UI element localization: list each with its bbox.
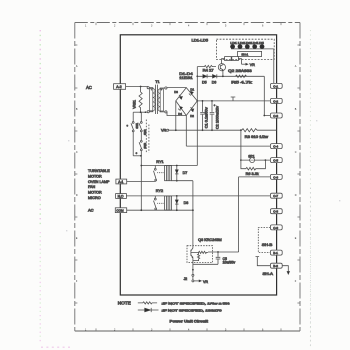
svg-text:C-7: C-7 — [273, 194, 278, 198]
wire COM rail — [127, 209, 193, 211]
svg-text:1: 1 — [85, 25, 87, 28]
wire switch bottom — [133, 155, 141, 157]
svg-text:LD1 LD2LD3LD4LD5: LD1 LD2LD3LD4LD5 — [230, 41, 264, 45]
svg-text:D4: D4 — [178, 112, 182, 116]
svg-text:Power Unit Circuit: Power Unit Circuit — [170, 319, 209, 324]
connector A-2 — [114, 84, 126, 90]
svg-text:SP1: SP1 — [248, 154, 255, 158]
LED LD5 — [260, 44, 264, 48]
svg-text:J2: J2 — [184, 277, 188, 281]
wire bridge+ up to diode row — [196, 67, 198, 101]
node RY2 coil bottom joins — [192, 209, 194, 211]
connector C-8 — [270, 209, 282, 214]
svg-text:Q2 2SA933: Q2 2SA933 — [228, 69, 252, 73]
svg-text:D2: D2 — [190, 114, 194, 118]
chassis arrow at B-2 — [282, 266, 290, 275]
wire RY1 top rail — [141, 165, 197, 167]
svg-text:VR: VR — [161, 129, 167, 133]
svg-text:C-6: C-6 — [273, 175, 278, 179]
relay RY1 contact — [154, 166, 165, 182]
svg-text:B-1: B-1 — [273, 251, 278, 255]
node emitter C5 join — [192, 269, 194, 271]
wire lower branch with D5 D6 — [197, 75, 264, 77]
wire bridge bottom down to C-4 line — [185, 116, 187, 147]
transformer T1 secondary winding — [158, 87, 167, 113]
connector C-6 — [270, 174, 282, 179]
node C1 bottom — [202, 129, 204, 131]
svg-text:VRS1: VRS1 — [133, 100, 137, 109]
svg-text:SH-1: SH-1 — [241, 52, 248, 56]
node dots on primary bottom wire — [140, 111, 142, 113]
svg-text:E: E — [295, 237, 297, 240]
svg-text:MOTOR: MOTOR — [88, 174, 102, 178]
border tick marks left — [75, 45, 78, 303]
outer page border frame — [75, 22, 300, 24]
switch SW1 left pole — [131, 112, 134, 156]
svg-text:VR: VR — [250, 63, 255, 67]
connector C-9 — [270, 225, 282, 230]
wire Q2 collector down — [222, 71, 224, 77]
svg-text:11ES1: 11ES1 — [179, 76, 193, 80]
svg-text:A-2: A-2 — [116, 85, 121, 89]
legend resistor symbol — [138, 302, 157, 304]
transistor Q2 — [218, 64, 225, 71]
svg-text:C-8: C-8 — [273, 210, 278, 214]
wire Q3 base line out — [208, 251, 239, 253]
capacitor C1 — [200, 101, 205, 130]
svg-text:*: * — [136, 152, 138, 156]
legend diode symbol — [138, 308, 159, 312]
svg-text:RY1: RY1 — [156, 160, 163, 164]
margin noise bottom dotted line pink — [41, 346, 71, 348]
svg-text:AC: AC — [88, 207, 94, 212]
svg-text:D: D — [76, 194, 78, 197]
shunt SH-A link to B-2 — [256, 257, 271, 266]
svg-text:AC: AC — [86, 85, 92, 90]
svg-text:SH-A: SH-A — [263, 272, 274, 276]
connector C-5 — [270, 158, 282, 163]
node bridge left to rail — [175, 129, 177, 131]
svg-text::IF NOT SPECIFIED, 1SS270: :IF NOT SPECIFIED, 1SS270 — [162, 308, 222, 312]
border tick marks right — [297, 45, 300, 303]
svg-text:TURNTABLE: TURNTABLE — [88, 169, 110, 173]
node SP1 right — [265, 159, 267, 161]
node Q2 collector — [222, 75, 224, 77]
svg-text:B: B — [295, 108, 297, 111]
transformer T1 primary winding — [147, 87, 155, 113]
wire R5 branch down to C-3 — [264, 76, 270, 115]
svg-text:VR: VR — [203, 280, 208, 284]
svg-text:D6: D6 — [212, 81, 217, 85]
bridge rectifier D1-D4 diamond — [176, 88, 198, 116]
svg-text:C-3: C-3 — [273, 114, 278, 118]
test point T mark — [231, 97, 236, 101]
node switch bottom — [140, 155, 142, 157]
connector C-1 — [270, 83, 282, 88]
svg-text:C-1: C-1 — [273, 84, 278, 88]
switch SW3 lower — [139, 140, 142, 210]
svg-text:D3: D3 — [174, 90, 178, 94]
wire primary bottom — [133, 111, 147, 113]
svg-text:C: C — [295, 151, 297, 154]
svg-text:RY2: RY2 — [156, 189, 163, 193]
wire C-4 line — [186, 145, 270, 147]
wire A-1 to RY1 contact — [127, 180, 156, 182]
svg-text:C-2: C-2 — [273, 99, 278, 103]
wire AC top to transformer — [126, 86, 149, 88]
svg-text:R3 910 1/2w: R3 910 1/2w — [245, 135, 269, 139]
jumper J2 terminals — [192, 274, 194, 282]
svg-text:5: 5 — [225, 25, 227, 28]
svg-text:SH-B: SH-B — [262, 243, 273, 247]
svg-text:COM: COM — [116, 209, 124, 213]
wire Q3 emitter down — [192, 263, 194, 275]
svg-text:*: * — [127, 125, 129, 129]
diode D1 arrow — [189, 91, 194, 96]
node diode row split — [196, 75, 198, 77]
svg-text:C2 1000u/25v: C2 1000u/25v — [215, 106, 219, 129]
diode D3 arrow — [179, 95, 183, 100]
svg-text:D5: D5 — [202, 81, 207, 85]
wire LED common bracket — [231, 49, 274, 84]
wire R2 right lead — [238, 59, 241, 65]
resistor R3 zigzag — [242, 129, 277, 132]
node C2 bottom — [211, 129, 213, 131]
connector COM — [115, 208, 126, 213]
resistor Q3 base R — [191, 251, 208, 253]
svg-text:B: B — [76, 108, 78, 111]
connector C-3 — [270, 113, 282, 118]
svg-text:MICRO: MICRO — [88, 196, 101, 200]
border index marks — [76, 25, 297, 332]
svg-text:A-1: A-1 — [118, 180, 123, 184]
diode D4 arrow — [178, 106, 183, 110]
margin noise right dotted line — [309, 30, 311, 348]
capacitor C5 — [193, 252, 220, 264]
wire C-6 line — [239, 177, 271, 252]
wire RY1 bottom rail to Q3 — [172, 181, 193, 246]
border tick marks top — [96, 23, 281, 26]
node D8 bottom — [176, 209, 178, 211]
diode D8 — [175, 196, 178, 210]
svg-text:F: F — [295, 280, 297, 283]
node RY1 rail left — [140, 165, 142, 167]
connector C-4 — [270, 144, 282, 149]
svg-text:Q3 KRC243M: Q3 KRC243M — [198, 238, 222, 242]
node D8 top — [176, 195, 178, 197]
diode D7 — [175, 166, 178, 181]
margin noise left dotted line pink — [39, 30, 41, 225]
arrow to VR net — [242, 63, 249, 65]
svg-text:A: A — [295, 65, 297, 68]
resistor R5 on line — [236, 75, 247, 77]
svg-text:SW1: SW1 — [135, 122, 139, 128]
LED LD2 — [238, 44, 242, 48]
LED LD4 — [253, 44, 257, 48]
svg-text:C: C — [76, 151, 78, 154]
wire DC+ top rail — [197, 100, 270, 102]
svg-text::IF NOT SPECIFIED, 1/4w ± 5%: :IF NOT SPECIFIED, 1/4w ± 5% — [162, 301, 230, 305]
wire N.O to C-7 — [126, 195, 270, 197]
relay RY1 coil — [165, 166, 172, 181]
svg-text:R5 4.7k: R5 4.7k — [231, 80, 252, 85]
svg-text:NOTE: NOTE — [118, 301, 131, 306]
inner schematic box — [120, 35, 276, 295]
svg-text:D1: D1 — [190, 87, 194, 91]
varistor VRS1 — [139, 87, 142, 113]
svg-text:N.O: N.O — [118, 194, 124, 198]
wire rail to SP1 vertical — [240, 130, 242, 160]
svg-text:3: 3 — [151, 25, 153, 28]
node C1 top — [202, 100, 204, 102]
wire secondary bottom to bridge — [167, 112, 186, 116]
svg-text:MOTOR: MOTOR — [88, 191, 102, 195]
transistor Q3 dashed box — [187, 246, 213, 263]
relay RY2 coil — [165, 196, 172, 210]
node C-3 corner — [263, 115, 265, 117]
arrow to VR net bottom — [194, 280, 202, 282]
svg-text:D: D — [295, 194, 297, 197]
diode D6 — [212, 74, 216, 78]
node junction VRS1 top — [140, 86, 142, 88]
diode D5 — [203, 74, 207, 78]
svg-text:10u/35v: 10u/35v — [223, 261, 236, 265]
margin noise faint specks — [66, 120, 340, 231]
wire R1 left lead to Q2 base — [222, 59, 225, 64]
relay RY2 contact — [154, 196, 165, 210]
connector B-2 — [270, 263, 282, 268]
node D7 top — [176, 165, 178, 167]
terminal VR circle — [167, 129, 169, 131]
wire bridge left corner down — [175, 101, 177, 130]
resistor Q3 base-emitter R — [193, 252, 200, 260]
svg-text:4: 4 — [188, 25, 190, 28]
resistor R1 box — [225, 57, 232, 61]
svg-text:D7: D7 — [183, 171, 188, 175]
svg-text:A: A — [76, 65, 78, 68]
diode D2 arrow — [191, 107, 195, 112]
transformer T1 core — [156, 85, 158, 114]
node COM bus — [140, 209, 142, 211]
svg-text:6: 6 — [262, 25, 264, 28]
border tick marks bottom — [96, 328, 281, 331]
LED LD1 — [230, 44, 234, 48]
svg-text:T1: T1 — [155, 80, 159, 84]
switch SW2 middle pole — [139, 112, 142, 140]
connector B-1 — [270, 250, 282, 255]
svg-text:2: 2 — [114, 25, 116, 28]
shunt SH-B dashed link C-9 to B-1 — [258, 227, 270, 252]
svg-text:C-5: C-5 — [273, 159, 278, 163]
resistor R6 parallel loop — [241, 160, 266, 170]
label TURNTABLE MOTOR OVEN LAMP FAN MOTOR — [88, 169, 110, 195]
svg-text:R4 27: R4 27 — [203, 68, 214, 72]
resistor R2 box — [232, 57, 239, 61]
node D7 bottom — [176, 180, 178, 182]
wire bridge right down to RY1 rail — [196, 101, 198, 166]
LED LD3 — [245, 44, 249, 48]
node SP1 left — [240, 159, 242, 161]
node bridge + output — [196, 100, 198, 102]
svg-text:C-4: C-4 — [273, 145, 278, 149]
resistor R4 on upper branch — [197, 65, 216, 67]
display unit SH-1 box — [238, 51, 262, 56]
buzzer SP1 — [241, 158, 271, 163]
transistor Q3 symbol — [191, 246, 193, 263]
svg-text:FAN: FAN — [88, 185, 96, 189]
svg-text:C-9: C-9 — [273, 226, 278, 230]
svg-text:R6 3.3k: R6 3.3k — [246, 172, 259, 176]
svg-text:D8: D8 — [184, 201, 189, 205]
connector C-7 — [270, 193, 282, 198]
connector C-2 — [270, 98, 282, 103]
svg-text:E: E — [76, 237, 78, 240]
wire DC- bottom rail — [169, 129, 242, 131]
connector N.O — [116, 194, 127, 199]
svg-text:F: F — [76, 280, 78, 283]
wire secondary top to bridge — [167, 87, 186, 89]
node C2 top — [211, 100, 213, 102]
node C5 top — [217, 251, 219, 253]
svg-text:B-2: B-2 — [273, 264, 278, 268]
svg-text:C1 0.1u/50v: C1 0.1u/50v — [205, 107, 209, 128]
capacitor C2 — [210, 101, 215, 130]
svg-text:LD1-LD5: LD1-LD5 — [192, 38, 209, 42]
svg-text:OVEN LAMP: OVEN LAMP — [88, 180, 110, 184]
mechanical link dashed — [146, 120, 149, 153]
connector A-1 — [116, 179, 127, 184]
display dashed box — [216, 39, 274, 59]
node R3 left junction — [240, 129, 242, 131]
